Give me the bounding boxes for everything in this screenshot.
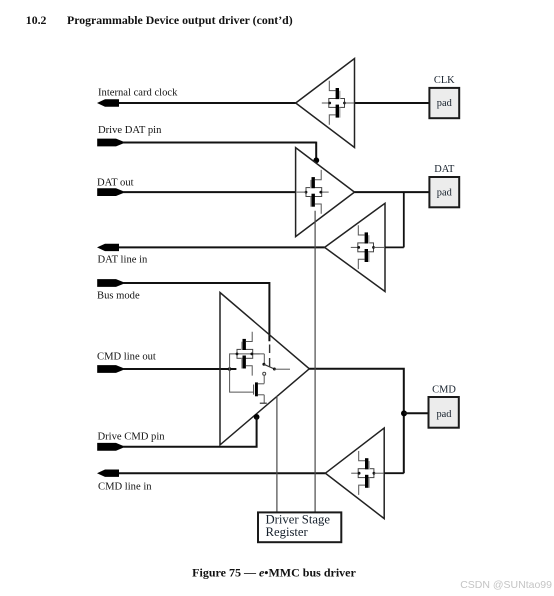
- svg-text:pad: pad: [437, 98, 453, 109]
- wire: U4 output to CMD pad: [309, 369, 404, 473]
- wire: Drive DAT drop to U2: [315, 142, 317, 159]
- wire: Q3 gate feed: [230, 369, 254, 392]
- wire: contact to Q3 drain: [263, 375, 265, 383]
- wire: DAT line in: [117, 246, 325, 248]
- arrow: Drive DAT pin (right): [97, 139, 123, 147]
- arrow: Internal card clock (left): [97, 99, 119, 106]
- transistor Q3 (pull-down): [254, 382, 267, 403]
- node: CMD pad junction dot: [401, 410, 407, 416]
- wire: U2 output to DAT pad: [355, 191, 431, 193]
- node: Drive CMD junction dot on U4 edge: [254, 414, 260, 420]
- arrow: DAT line in (left): [97, 244, 119, 251]
- svg-text:CLK: CLK: [434, 75, 455, 86]
- wire: U3 input from pad branch: [385, 246, 404, 248]
- wire: CMD line in: [117, 472, 325, 474]
- svg-text:CSDN @SUNtao99: CSDN @SUNtao99: [460, 579, 552, 591]
- wire: Drive CMD pin: [121, 417, 257, 447]
- DAT pad: [429, 164, 459, 207]
- wire: CMD line out: [121, 368, 236, 370]
- transistor pair in U1: [322, 81, 346, 125]
- wire: DAT out: [121, 191, 296, 193]
- wire: Bus mode dashed control: [269, 345, 271, 367]
- svg-text:pad: pad: [436, 409, 452, 420]
- svg-text:CMD line out: CMD line out: [97, 352, 156, 363]
- wire: U5 input from pad branch: [384, 472, 404, 474]
- svg-text:Drive DAT pin: Drive DAT pin: [98, 125, 162, 136]
- arrow: CMD line out (right): [97, 365, 123, 373]
- svg-text:Bus mode: Bus mode: [97, 290, 140, 301]
- svg-text:Internal card clock: Internal card clock: [98, 87, 178, 98]
- wire: Internal card clock: [117, 102, 296, 104]
- switch S1 blade: [264, 364, 275, 369]
- wire: switch to output: [274, 368, 290, 370]
- wire: Drive DAT pin: [121, 142, 316, 144]
- switch S1 pivot dot: [262, 363, 265, 366]
- svg-text:Drive CMD pin: Drive CMD pin: [98, 432, 166, 443]
- transistor pair in U2 (mirrored): [305, 170, 329, 214]
- wire: junction to CMD pad: [404, 412, 429, 414]
- buffer U5 (CMD input buffer, points left): [325, 428, 384, 519]
- heading 10.2: [26, 13, 293, 27]
- svg-text:DAT out: DAT out: [97, 177, 134, 188]
- wire: control line from U2 to register: [314, 211, 316, 513]
- wire: U5 internal output stub: [374, 472, 384, 474]
- Driver Stage Register box: [258, 512, 341, 542]
- wire: U1 internal output stub: [345, 102, 355, 104]
- switch S1 output dot: [273, 368, 276, 371]
- wire: U3 internal output stub: [374, 246, 386, 248]
- svg-text:10.2: 10.2: [26, 13, 47, 27]
- switch S1 contact circle: [263, 372, 266, 375]
- wire: U1 to CLK pad: [355, 102, 430, 104]
- svg-text:pad: pad: [437, 188, 453, 199]
- node: CMD input junction dot: [228, 367, 232, 371]
- buffer U1 (CLK input buffer, points left): [296, 59, 355, 148]
- node: Drive DAT junction dot: [313, 157, 319, 163]
- CLK pad: [429, 75, 459, 118]
- svg-text:Register: Register: [266, 525, 309, 539]
- buffer U2 (DAT output driver, points right): [296, 148, 355, 237]
- svg-text:CMD: CMD: [432, 385, 456, 396]
- transistor pair in U5: [351, 451, 375, 495]
- svg-text:CMD line in: CMD line in: [98, 481, 152, 492]
- wire: Bus mode: [121, 283, 269, 341]
- svg-text:DAT line in: DAT line in: [98, 255, 149, 266]
- wire: gate riser to pair: [230, 354, 265, 369]
- buffer U3 (DAT input buffer, points left): [325, 203, 385, 291]
- svg-text:Programmable Device output dri: Programmable Device output driver (cont’…: [67, 13, 293, 27]
- CMD pad: [429, 385, 459, 428]
- svg-text:Figure 75 — e•MMC bus driver: Figure 75 — e•MMC bus driver: [192, 565, 356, 579]
- wire: U2 internal input stub: [297, 191, 307, 193]
- buffer U4 (CMD output driver, big triangle): [220, 293, 309, 445]
- arrow: Drive CMD pin (right): [97, 443, 123, 451]
- transistor pair in U3: [351, 225, 375, 269]
- svg-text:DAT: DAT: [434, 164, 455, 175]
- arrow: Bus mode (right): [97, 279, 123, 287]
- arrow: CMD line in (left): [97, 470, 119, 477]
- transistor pair in U4 (mirrored): [236, 332, 260, 376]
- arrow: DAT out (right): [97, 188, 123, 196]
- wire: control line from U4 to register: [276, 396, 278, 512]
- wire: DAT pad branch down to U3: [403, 192, 405, 247]
- wire: switch drop: [263, 354, 265, 363]
